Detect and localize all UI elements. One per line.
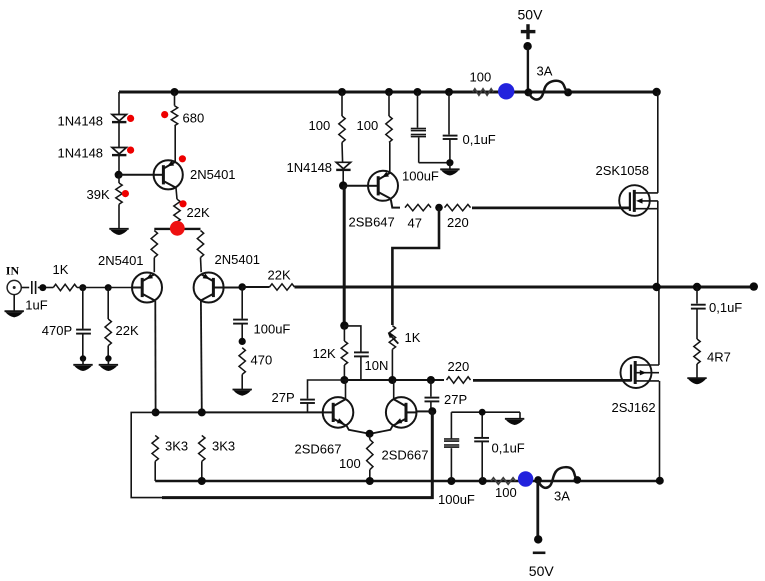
wire jack to ground xyxy=(13,295,15,311)
svg-text:2SJ162: 2SJ162 xyxy=(612,400,656,415)
resistor 220 gate J xyxy=(447,359,471,383)
capacitor 100uF mid xyxy=(402,92,439,184)
wire Q2 collector down xyxy=(200,301,203,412)
wire node B2 to Q4 base xyxy=(343,185,368,187)
capacitor 0.1uF output xyxy=(691,287,742,339)
svg-text:IN: IN xyxy=(6,264,20,278)
svg-text:100: 100 xyxy=(357,118,379,133)
wire K drain up xyxy=(657,92,659,193)
red marker dot near D2 xyxy=(127,147,134,154)
junction rail / 680 xyxy=(171,88,179,96)
red marker dot near D1 xyxy=(127,115,134,122)
wire jack to C 1uF xyxy=(21,287,29,289)
junction rail / 100uF xyxy=(414,88,422,96)
svg-text:39K: 39K xyxy=(87,187,110,202)
junction cap ground node xyxy=(446,159,453,166)
junction -50V terminal dot xyxy=(534,535,542,543)
svg-text:12K: 12K xyxy=(313,346,336,361)
svg-text:1N4148: 1N4148 xyxy=(58,146,104,161)
wire +50V down to rail xyxy=(527,46,529,92)
ground below 470 xyxy=(233,390,252,396)
svg-text:1K: 1K xyxy=(53,262,69,277)
node -50V supply label xyxy=(529,563,555,579)
capacitor 10N xyxy=(344,326,388,380)
wire node IN-B to Q1 base xyxy=(108,287,132,289)
junction rail fuse left xyxy=(524,88,532,96)
svg-text:100: 100 xyxy=(470,70,492,85)
ground bottom caps xyxy=(505,412,524,425)
junction rail-0.1uF xyxy=(479,477,487,485)
junction 1K bottom xyxy=(388,376,396,384)
resistor 220 gate K xyxy=(445,204,471,230)
svg-text:470: 470 xyxy=(251,353,273,368)
svg-text:470P: 470P xyxy=(42,323,72,338)
wire left loop xyxy=(131,412,163,497)
red marker dot near 680 xyxy=(161,111,168,118)
wire to node IN-B xyxy=(77,287,108,289)
resistor 100 rail-a xyxy=(309,92,346,163)
junction rail-3K3r xyxy=(198,477,206,485)
ground mid caps xyxy=(440,163,459,176)
diode D1 1N4148 xyxy=(58,114,127,129)
resistor 22K input xyxy=(105,288,139,359)
junction rail / J source xyxy=(656,477,664,485)
resistor 47 xyxy=(405,204,431,230)
junction fuse left bottom xyxy=(534,476,542,484)
wire rail corner down to D1 xyxy=(118,92,120,115)
svg-text:2N5401: 2N5401 xyxy=(215,252,261,267)
wire J drain up to output xyxy=(658,287,660,365)
svg-text:2SK1058: 2SK1058 xyxy=(596,163,650,178)
junction +50V terminal dot xyxy=(523,42,531,50)
wire -50V drop xyxy=(536,480,539,540)
junction rail / R100b xyxy=(385,88,393,96)
fuse 3A top xyxy=(529,64,568,100)
diode D3 1N4148 xyxy=(287,160,351,175)
blue marker dot bottom xyxy=(518,471,533,486)
junction node IN-B xyxy=(105,284,112,291)
resistor 22K below Q3 xyxy=(174,188,210,228)
junction output / K source xyxy=(652,283,660,291)
svg-text:2SD667: 2SD667 xyxy=(382,448,429,463)
wire D1 to D2 xyxy=(118,122,120,147)
junction Q6 base node xyxy=(428,407,436,415)
junction output / 0.1uF xyxy=(693,283,701,291)
resistor 100 top fuse-side xyxy=(470,70,494,96)
transistor Q2 2N5401 xyxy=(194,252,260,303)
red marker dot near 22K xyxy=(179,200,186,207)
svg-text:220: 220 xyxy=(447,215,469,230)
wire Q6 emitter to node xyxy=(370,424,393,433)
ground below input 22K xyxy=(99,359,118,372)
junction rail / 2SK1058 drain xyxy=(652,88,660,96)
wire D2 to node B1 xyxy=(118,155,120,175)
svg-text:3A: 3A xyxy=(554,489,570,504)
wire y380 node xyxy=(344,379,444,381)
junction 27P-220 node xyxy=(427,376,435,384)
resistor 12K body xyxy=(313,341,348,380)
resistor 680 xyxy=(171,92,204,162)
wire right thick riser xyxy=(431,411,434,499)
svg-text:27P: 27P xyxy=(272,390,295,405)
wire negative rail xyxy=(155,480,660,483)
transistor Q1 2N5401 xyxy=(98,253,162,303)
wire Q6 collector up xyxy=(393,380,395,400)
junction caps top 0.1uF xyxy=(479,409,486,416)
capacitor 100uF bottom xyxy=(438,412,475,507)
svg-text:10N: 10N xyxy=(365,358,389,373)
junction 47-220 node xyxy=(435,204,443,212)
input jack xyxy=(7,280,21,294)
svg-text:2N5401: 2N5401 xyxy=(190,167,236,182)
transistor U1 2SK1058 xyxy=(596,163,658,216)
minus symbol for -50V xyxy=(533,551,546,554)
wire Q4 collector xyxy=(391,200,400,208)
junction 12K bottom xyxy=(340,376,348,384)
resistor 100 bottom fuse-side xyxy=(491,478,517,500)
junction rail fuse right xyxy=(564,88,572,96)
wire J source down xyxy=(659,381,661,481)
junction rail-100uF xyxy=(447,477,455,485)
junction 12K top node xyxy=(340,321,348,329)
wire cap commons xyxy=(419,162,450,164)
svg-text:680: 680 xyxy=(183,111,205,126)
svg-text:100uF: 100uF xyxy=(402,169,439,184)
svg-text:1N4148: 1N4148 xyxy=(287,160,333,175)
wire Q5 collector up xyxy=(345,380,347,400)
svg-text:0,1uF: 0,1uF xyxy=(463,132,496,147)
svg-text:2SD667: 2SD667 xyxy=(295,442,342,457)
resistor 1K input xyxy=(53,262,77,291)
capacitor 100uF feedback xyxy=(233,287,290,341)
svg-text:3K3: 3K3 xyxy=(212,439,235,454)
wire base line left xyxy=(156,411,323,413)
transistor Q3 2N5401 xyxy=(154,160,236,189)
transistor Q6 2SD667 xyxy=(382,397,429,462)
svg-text:2SB647: 2SB647 xyxy=(349,215,395,230)
resistor 470 feedback xyxy=(239,348,272,390)
plus symbol for +50V xyxy=(521,24,536,39)
svg-text:22K: 22K xyxy=(268,268,291,283)
wire D3 to node B2 xyxy=(342,170,344,186)
wire bottom thick link xyxy=(162,496,434,499)
wire Q1 collector down xyxy=(154,301,156,412)
capacitor 0.1uF bottom xyxy=(474,412,525,481)
resistor 3K3 left xyxy=(152,435,188,481)
resistor left emitter xyxy=(151,231,157,273)
red marker dot near 39K xyxy=(122,190,129,197)
transistor Q4 2SB647 xyxy=(349,171,399,230)
red marker dot near Q3 xyxy=(179,155,186,162)
junction base-3K3 left xyxy=(152,408,160,416)
diode D2 1N4148 xyxy=(58,146,127,161)
svg-text:3K3: 3K3 xyxy=(165,439,188,454)
junction 470P ground dot xyxy=(80,355,86,361)
wire Q5 emitter to node xyxy=(346,424,370,433)
resistor 12K xyxy=(343,326,345,341)
svg-text:100uF: 100uF xyxy=(254,322,291,337)
junction node B2 xyxy=(339,181,347,189)
wire 47-220 node down-jog xyxy=(392,208,439,325)
resistor 100 rail-b xyxy=(357,92,393,173)
svg-text:3A: 3A xyxy=(537,64,553,79)
capacitor 27P right xyxy=(425,380,468,411)
junction fuse right bottom xyxy=(574,476,582,484)
capacitor 470P xyxy=(42,288,91,359)
wire node B2 down xyxy=(343,186,346,326)
trimmer 1K xyxy=(388,326,421,380)
wire output line xyxy=(242,286,754,289)
capacitor 27P left xyxy=(272,380,345,412)
resistor right emitter xyxy=(197,231,203,273)
wire caps top common xyxy=(451,411,520,413)
resistor 4R7 xyxy=(694,339,731,378)
wire Q2 base to fb node xyxy=(224,287,243,289)
ground below 4R7 xyxy=(687,378,706,384)
svg-text:0,1uF: 0,1uF xyxy=(709,300,742,315)
big red node marker xyxy=(170,221,185,236)
svg-text:22K: 22K xyxy=(187,205,210,220)
svg-text:0,1uF: 0,1uF xyxy=(492,441,525,456)
transistor U2 2SJ162 xyxy=(612,357,660,415)
junction node B1 xyxy=(115,171,123,179)
svg-text:22K: 22K xyxy=(116,323,139,338)
svg-text:2N5401: 2N5401 xyxy=(98,253,144,268)
transistor Q5 2SD667 xyxy=(295,397,354,456)
svg-text:1N4148: 1N4148 xyxy=(58,114,104,129)
junction node IN-A xyxy=(79,284,86,291)
wire emitter bracket xyxy=(154,228,200,230)
svg-text:100: 100 xyxy=(309,118,331,133)
junction output terminal xyxy=(750,282,758,290)
svg-text:50V: 50V xyxy=(529,563,555,579)
wire Q6 base stub xyxy=(417,410,433,412)
wire top supply rail xyxy=(119,91,657,94)
capacitor 0.1uF mid xyxy=(443,92,496,163)
ground below 470P xyxy=(73,359,92,372)
node +50V supply label xyxy=(518,7,544,23)
resistor 3K3 right xyxy=(199,435,236,481)
svg-text:4R7: 4R7 xyxy=(707,350,731,365)
svg-text:100: 100 xyxy=(339,456,361,471)
capacitor 1uF series xyxy=(25,281,47,313)
wire gate K xyxy=(472,206,630,209)
svg-text:100uF: 100uF xyxy=(438,492,475,507)
svg-text:1uF: 1uF xyxy=(25,298,47,313)
junction emitters node xyxy=(366,430,374,438)
junction 22K ground dot xyxy=(105,355,111,361)
svg-text:220: 220 xyxy=(448,359,470,374)
node IN label xyxy=(6,264,20,278)
blue marker dot top xyxy=(498,83,514,99)
junction rail / R100a xyxy=(338,88,346,96)
wire C1uF to node xyxy=(38,287,54,289)
ground below input jack xyxy=(5,311,24,317)
svg-text:27P: 27P xyxy=(444,392,467,407)
junction rail / 0.1uF xyxy=(445,88,453,96)
wire K source down to output xyxy=(657,201,659,287)
junction 100uF-470 xyxy=(239,338,246,345)
junction after 1uF xyxy=(39,284,46,291)
wire node B1 to Q3 base xyxy=(119,174,154,176)
svg-text:50V: 50V xyxy=(518,7,544,23)
junction base-3K3 right xyxy=(198,408,206,416)
resistor 39K xyxy=(87,175,123,229)
ground below 39K xyxy=(109,229,128,235)
wire Q5 e-node stub xyxy=(369,434,371,440)
fuse 3A bottom xyxy=(538,467,577,503)
resistor 100 emitters xyxy=(339,440,373,482)
svg-text:100: 100 xyxy=(495,485,517,500)
junction feedback node xyxy=(238,283,246,291)
svg-text:1K: 1K xyxy=(405,330,421,345)
wire gate J xyxy=(473,379,631,382)
svg-text:47: 47 xyxy=(408,216,422,231)
junction rail-100 xyxy=(366,477,374,485)
resistor 22K feedback xyxy=(268,268,295,291)
